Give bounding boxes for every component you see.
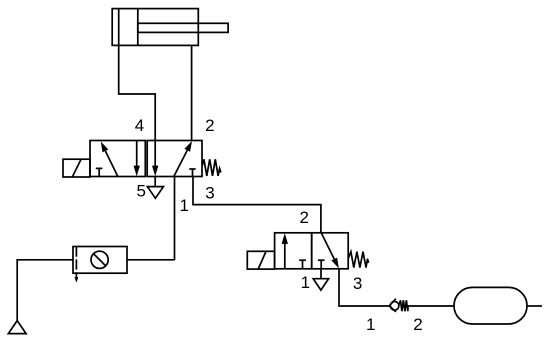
svg-text:3: 3 bbox=[205, 184, 214, 203]
regulator dashed adjustment line with arrow bbox=[74, 247, 78, 283]
cylinder piston rod bbox=[138, 23, 228, 32]
wire V2 port 3 to check valve bbox=[339, 269, 389, 306]
svg-text:4: 4 bbox=[135, 116, 144, 135]
svg-text:1: 1 bbox=[366, 315, 375, 334]
valve V1 5/2 body left cell bbox=[90, 141, 145, 177]
svg-text:5: 5 bbox=[136, 182, 145, 201]
V2 right cell blocked port T bbox=[318, 260, 325, 269]
V1 right cell diagonal arrow (1 to 2) bbox=[174, 141, 192, 177]
V2 left cell up arrow bbox=[282, 233, 288, 269]
wire cylinder right port to valve port 2 bbox=[191, 45, 193, 140]
check valve spring bbox=[399, 300, 408, 311]
V2 return spring bbox=[348, 252, 368, 268]
valve V2 3/2 body left cell bbox=[275, 233, 312, 269]
compressed air supply triangle bbox=[8, 321, 26, 334]
cylinder A (double-acting) body bbox=[112, 9, 198, 46]
air reservoir bbox=[454, 287, 527, 324]
wire cylinder left port to valve port 4 bbox=[119, 45, 156, 140]
wire supply to regulator bbox=[17, 260, 73, 321]
V1 right cell blocked port T bbox=[189, 169, 195, 177]
V2 right cell diagonal arrow (2 to 3) bbox=[321, 233, 339, 269]
V1 left cell blocked port T bbox=[96, 168, 103, 176]
V1 left cell diagonal arrow bbox=[101, 142, 118, 177]
V1 return spring bbox=[202, 159, 221, 176]
wire check valve to reservoir bbox=[408, 305, 454, 307]
V1 exhaust triangle port 5 bbox=[147, 177, 163, 199]
wire V1 port 1 down to supply line bbox=[174, 177, 176, 260]
svg-text:3: 3 bbox=[353, 274, 362, 293]
svg-text:1: 1 bbox=[301, 273, 310, 292]
svg-text:2: 2 bbox=[299, 208, 308, 227]
svg-text:2: 2 bbox=[205, 116, 214, 135]
svg-text:1: 1 bbox=[179, 196, 188, 215]
wire V1 port 3 to V2 port 2 bbox=[193, 177, 321, 233]
regulator unit body bbox=[73, 247, 127, 274]
cylinder piston bbox=[118, 9, 120, 46]
V2 exhaust triangle port 1 bbox=[313, 269, 328, 290]
V1 left cell down arrow bbox=[134, 141, 140, 177]
valve V2 3/2 body right cell bbox=[312, 233, 349, 269]
check valve ball bbox=[390, 302, 399, 311]
regulator circle with slash bbox=[91, 251, 108, 268]
V1 right cell down arrow (4 to 5) bbox=[152, 141, 158, 177]
svg-text:2: 2 bbox=[413, 315, 422, 334]
wire regulator to V1 port 1 bbox=[127, 259, 175, 261]
V1 manual actuator bbox=[63, 159, 90, 177]
check valve seat bbox=[389, 299, 396, 312]
V2 left cell blocked port T bbox=[299, 260, 306, 269]
valve V1 5/2 body right cell bbox=[147, 141, 202, 177]
V2 manual actuator bbox=[247, 251, 274, 269]
wire reservoir right stub bbox=[527, 305, 542, 307]
